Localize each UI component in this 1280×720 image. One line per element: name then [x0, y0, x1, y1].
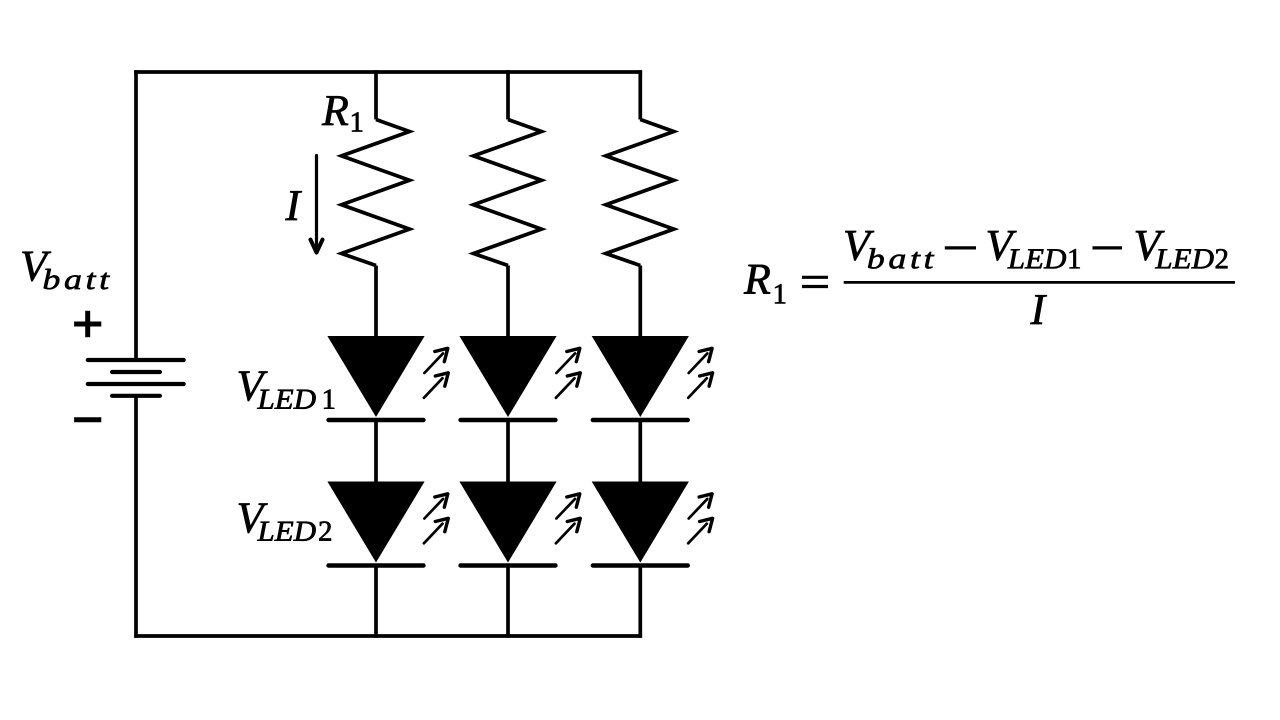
LED branch3 row1 [592, 336, 689, 420]
LED branch2 row1 light arrows [556, 348, 580, 398]
current arrow I [311, 156, 323, 253]
label formula numerator V_batt [845, 231, 874, 260]
wire branch2 resistor to LED1 [506, 266, 510, 342]
label V_batt [22, 252, 51, 281]
LED branch2 row1 [459, 336, 556, 420]
LED branch1 row2 light arrows [424, 494, 448, 544]
LED branch2 row2 [459, 482, 556, 566]
wire branch3 LED2 to bottom rail [638, 566, 642, 638]
label formula minus 1 [945, 246, 976, 249]
label formula numerator V_LED2 [1136, 231, 1165, 260]
LED branch1 row2 [327, 482, 424, 566]
wire bottom rail [134, 634, 642, 638]
label formula R [744, 265, 770, 294]
LED branch1 row1 [327, 336, 424, 420]
wire branch1 resistor to LED1 [374, 266, 378, 342]
fraction bar [844, 281, 1235, 284]
label V_LED2 [239, 503, 268, 532]
wire branch3 resistor to LED1 [638, 266, 642, 342]
resistor R (branch 3) [606, 120, 674, 266]
LED branch3 row2 light arrows [688, 494, 712, 544]
label I [285, 191, 302, 220]
resistor R1 (branch 1) [342, 120, 410, 266]
wire branch3 LED1 to LED2 [638, 420, 642, 486]
wire branch3 top stub [638, 70, 642, 119]
wire left vertical lower (battery - lead) [134, 396, 138, 638]
label V_LED1 [239, 371, 268, 400]
label formula numerator V_LED1 [988, 231, 1017, 260]
wire top rail [134, 70, 642, 74]
LED branch1 row1 light arrows [424, 348, 448, 398]
wire branch1 top stub [374, 70, 378, 119]
label formula equals sign [802, 276, 828, 279]
LED branch2 row2 light arrows [556, 494, 580, 544]
label formula minus 2 [1093, 246, 1123, 249]
formula R1 = (Vbatt - VLED1 - VLED2)/I [744, 231, 1235, 324]
wire left vertical upper (battery + lead) [134, 70, 138, 360]
battery - terminal [74, 417, 101, 422]
LED branch3 row2 [592, 482, 689, 566]
resistor R (branch 2) [474, 120, 542, 266]
label formula R subscript 1 [775, 284, 785, 303]
wire branch2 LED2 to bottom rail [506, 566, 510, 638]
label formula denominator I [1030, 295, 1047, 324]
wire branch2 LED1 to LED2 [506, 420, 510, 486]
battery V_batt [88, 360, 184, 396]
wire branch2 top stub [506, 70, 510, 119]
LED branch3 row1 light arrows [688, 348, 712, 398]
wire branch1 LED1 to LED2 [374, 420, 378, 486]
label R1 [322, 96, 348, 125]
battery + terminal [74, 311, 101, 337]
wire branch1 LED2 to bottom rail [374, 566, 378, 638]
